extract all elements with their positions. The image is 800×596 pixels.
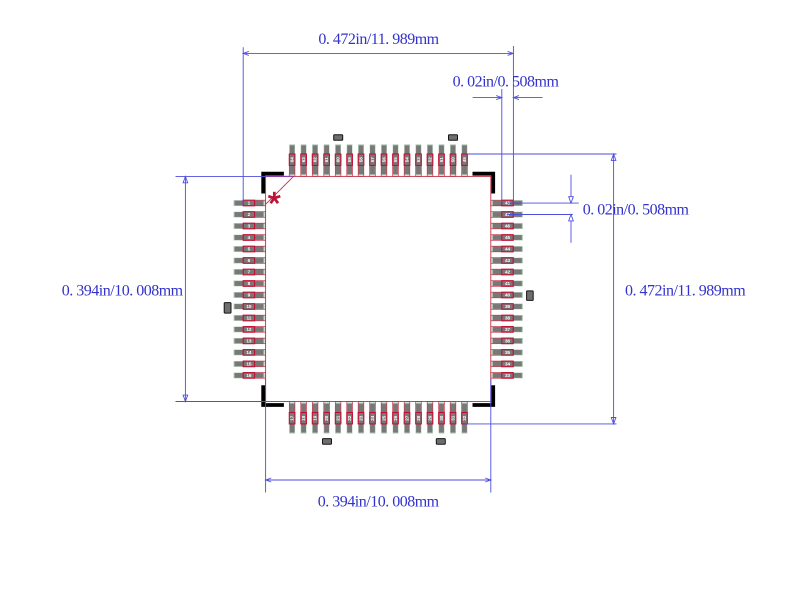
pad 51 (top side)	[439, 144, 445, 176]
pad 45 (right side)	[491, 235, 523, 241]
pad 59 (top side)	[347, 144, 353, 176]
dimension: overall width 0.472in/11.989mm (top)	[243, 31, 513, 206]
svg-text:0. 02in/0. 508mm: 0. 02in/0. 508mm	[453, 74, 560, 91]
pin-1 marker asterisk	[268, 192, 280, 203]
svg-text:59: 59	[347, 157, 352, 163]
svg-text:53: 53	[416, 157, 421, 163]
svg-text:63: 63	[301, 157, 306, 163]
orientation mark top-left	[334, 135, 343, 141]
svg-text:34: 34	[505, 361, 511, 366]
pad 25 (bottom side)	[381, 402, 387, 434]
svg-text:41: 41	[505, 281, 511, 286]
dimension: body height 0.394in/10.008mm (left)	[62, 176, 293, 401]
svg-text:25: 25	[382, 415, 387, 421]
svg-text:36: 36	[505, 338, 511, 343]
pad 49 (top side)	[462, 144, 468, 176]
svg-text:7: 7	[248, 270, 251, 275]
IC body outline U1 (chamfered pin-1 corner)	[266, 176, 491, 401]
pad 56 (top side)	[381, 144, 387, 176]
pad 17 (bottom side)	[289, 402, 295, 434]
pad 30 (bottom side)	[439, 402, 445, 434]
pin-1 chamfer diagonal	[266, 176, 294, 204]
pad 29 (bottom side)	[427, 402, 433, 434]
svg-text:27: 27	[405, 415, 410, 421]
pad 19 (bottom side)	[312, 402, 318, 434]
pad 54 (top side)	[404, 144, 410, 176]
svg-text:10: 10	[246, 304, 252, 309]
pad 33 (right side)	[491, 373, 523, 379]
pad 16 (left side)	[234, 373, 266, 379]
pad 7 (left side)	[234, 269, 266, 275]
dimension: contact length 0.02in/0.508mm (top-right)	[453, 74, 560, 204]
svg-text:14: 14	[246, 350, 252, 355]
pad 47 (right side)	[491, 212, 523, 218]
svg-text:58: 58	[359, 157, 364, 163]
svg-text:0. 02in/0. 508mm: 0. 02in/0. 508mm	[583, 202, 690, 219]
corner bracket bottom-left	[261, 385, 284, 407]
pad 28 (bottom side)	[416, 402, 422, 434]
pad 14 (left side)	[234, 350, 266, 356]
svg-text:18: 18	[301, 415, 306, 421]
svg-text:38: 38	[505, 316, 511, 321]
pad 35 (right side)	[491, 350, 523, 356]
orientation mark top-right	[449, 135, 458, 141]
svg-text:0. 394in/10. 008mm: 0. 394in/10. 008mm	[318, 493, 440, 510]
pad 13 (left side)	[234, 338, 266, 344]
svg-text:40: 40	[505, 293, 511, 298]
pad 1 (left side)	[234, 200, 266, 206]
svg-text:32: 32	[462, 415, 467, 421]
svg-text:9: 9	[248, 293, 251, 298]
corner bracket bottom-right	[473, 385, 496, 407]
svg-text:17: 17	[290, 415, 295, 421]
svg-text:2: 2	[248, 212, 251, 217]
pad 64 (top side)	[289, 144, 295, 176]
svg-text:16: 16	[246, 373, 252, 378]
svg-text:51: 51	[439, 157, 444, 163]
svg-text:57: 57	[370, 157, 375, 163]
svg-text:61: 61	[324, 157, 329, 163]
pad 12 (left side)	[234, 327, 266, 333]
pad 21 (bottom side)	[335, 402, 341, 434]
svg-text:0. 394in/10. 008mm: 0. 394in/10. 008mm	[62, 283, 184, 300]
svg-text:30: 30	[439, 415, 444, 421]
svg-text:44: 44	[505, 247, 511, 252]
svg-text:46: 46	[505, 224, 511, 229]
dimension: body width 0.394in/10.008mm (bottom)	[266, 379, 491, 510]
orientation mark bottom-left	[323, 439, 332, 445]
svg-text:24: 24	[370, 415, 375, 421]
pad 6 (left side)	[234, 258, 266, 264]
svg-text:60: 60	[336, 157, 341, 163]
pad 3 (left side)	[234, 223, 266, 229]
svg-text:11: 11	[246, 316, 251, 321]
pad 55 (top side)	[393, 144, 399, 176]
pad 57 (top side)	[370, 144, 376, 176]
pad 44 (right side)	[491, 246, 523, 252]
pad 31 (bottom side)	[450, 402, 456, 434]
pad 18 (bottom side)	[301, 402, 307, 434]
svg-text:13: 13	[246, 338, 252, 343]
pad 53 (top side)	[416, 144, 422, 176]
dimension: pad pitch 0.02in/0.508mm (right)	[507, 175, 689, 243]
corner bracket top-right	[473, 172, 496, 194]
svg-text:12: 12	[246, 327, 252, 332]
svg-text:64: 64	[290, 157, 295, 163]
pad 37 (right side)	[491, 327, 523, 333]
svg-text:50: 50	[451, 157, 456, 163]
orientation mark right	[527, 291, 534, 301]
pad 61 (top side)	[324, 144, 330, 176]
pad 41 (right side)	[491, 281, 523, 287]
pad 24 (bottom side)	[370, 402, 376, 434]
orientation mark left	[224, 303, 231, 314]
svg-text:33: 33	[505, 373, 511, 378]
pad 50 (top side)	[450, 144, 456, 176]
svg-text:20: 20	[324, 415, 329, 421]
pad 63 (top side)	[301, 144, 307, 176]
extension/body overlap segment (purple) top-left	[265, 175, 293, 177]
pad 36 (right side)	[491, 338, 523, 344]
corner bracket top-left	[261, 172, 284, 194]
pad 10 (left side)	[234, 304, 266, 310]
svg-text:8: 8	[248, 281, 251, 286]
svg-text:3: 3	[248, 224, 251, 229]
svg-text:52: 52	[428, 157, 433, 163]
pad 27 (bottom side)	[404, 402, 410, 434]
svg-text:5: 5	[248, 247, 251, 252]
svg-text:22: 22	[347, 415, 352, 421]
pad 38 (right side)	[491, 315, 523, 321]
svg-text:29: 29	[428, 415, 433, 421]
pad 58 (top side)	[358, 144, 364, 176]
svg-text:49: 49	[462, 157, 467, 163]
pad 40 (right side)	[491, 292, 523, 298]
pad 52 (top side)	[427, 144, 433, 176]
svg-text:37: 37	[505, 327, 511, 332]
svg-text:45: 45	[505, 235, 511, 240]
svg-text:28: 28	[416, 415, 421, 421]
svg-text:6: 6	[248, 258, 251, 263]
svg-text:56: 56	[382, 157, 387, 163]
svg-text:54: 54	[405, 157, 410, 163]
pad 32 (bottom side)	[462, 402, 468, 434]
pad 48 (right side)	[491, 200, 523, 206]
pad 60 (top side)	[335, 144, 341, 176]
pad 34 (right side)	[491, 361, 523, 367]
pad 43 (right side)	[491, 258, 523, 264]
pad 15 (left side)	[234, 361, 266, 367]
svg-text:23: 23	[359, 415, 364, 421]
pad 26 (bottom side)	[393, 402, 399, 434]
pad 23 (bottom side)	[358, 402, 364, 434]
svg-text:35: 35	[505, 350, 511, 355]
pad 5 (left side)	[234, 246, 266, 252]
svg-text:62: 62	[313, 157, 318, 163]
svg-text:31: 31	[451, 415, 456, 421]
pad 22 (bottom side)	[347, 402, 353, 434]
svg-text:0. 472in/11. 989mm: 0. 472in/11. 989mm	[625, 283, 746, 300]
svg-text:55: 55	[393, 157, 398, 163]
pad 62 (top side)	[312, 144, 318, 176]
pad 46 (right side)	[491, 223, 523, 229]
pad 9 (left side)	[234, 292, 266, 298]
pad 11 (left side)	[234, 315, 266, 321]
pad 20 (bottom side)	[324, 402, 330, 434]
svg-text:4: 4	[248, 235, 251, 240]
pad 4 (left side)	[234, 235, 266, 241]
pad 42 (right side)	[491, 269, 523, 275]
pad 39 (right side)	[491, 304, 523, 310]
svg-text:39: 39	[505, 304, 511, 309]
dimension: overall height 0.472in/11.989mm (right)	[465, 154, 746, 424]
extension/body overlap segment (purple) bottom-left	[265, 401, 293, 403]
svg-text:42: 42	[505, 270, 511, 275]
svg-text:19: 19	[313, 415, 318, 421]
svg-text:26: 26	[393, 415, 398, 421]
svg-text:15: 15	[246, 361, 252, 366]
svg-text:1: 1	[248, 201, 251, 206]
orientation mark bottom-right	[436, 439, 445, 445]
svg-text:0. 472in/11. 989mm: 0. 472in/11. 989mm	[318, 31, 439, 48]
pad 8 (left side)	[234, 281, 266, 287]
svg-text:21: 21	[336, 415, 341, 421]
pad 2 (left side)	[234, 212, 266, 218]
svg-text:43: 43	[505, 258, 511, 263]
